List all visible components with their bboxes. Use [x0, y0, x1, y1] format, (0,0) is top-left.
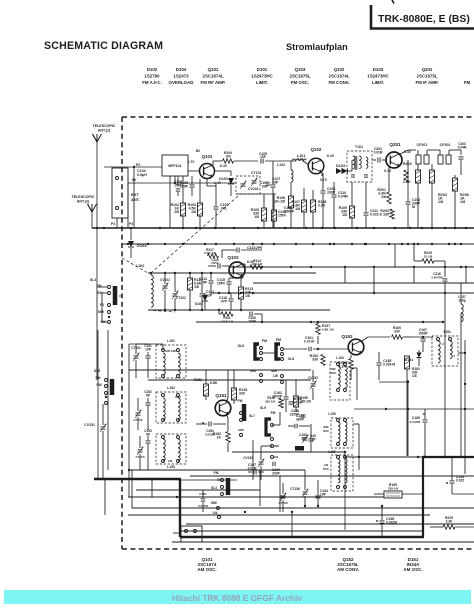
resistor R109 box — [350, 206, 355, 218]
bus y267 — [230, 266, 474, 268]
svg-text:Q201: Q201 — [389, 142, 401, 147]
wire D103 to T101 — [348, 170, 352, 172]
switch SI-5 bar — [110, 379, 115, 395]
wire y480 continues — [178, 479, 237, 481]
wire y457 left segment — [345, 456, 423, 458]
svg-text:TELESCOPIC: TELESCOPIC — [72, 195, 95, 199]
capacitor C165 0.033M — [377, 362, 382, 364]
wire cv101 bottom — [236, 193, 276, 195]
cyan footer band — [4, 590, 471, 604]
transistor Q152 AM conv — [348, 339, 364, 355]
svg-text:T101: T101 — [355, 145, 363, 149]
wire x98 down — [97, 330, 99, 480]
ceramic filter CF201 — [416, 155, 421, 164]
resistor R157 6.8K — [316, 324, 320, 335]
svg-text:LW: LW — [274, 455, 279, 459]
junction on bus y228 — [421, 227, 423, 229]
svg-text:2SC1674L: 2SC1674L — [329, 74, 350, 79]
bus y310 — [148, 309, 330, 311]
resistor R206 box — [453, 178, 458, 191]
resistor R229 3.3K — [443, 525, 455, 529]
junction on bus y228 — [159, 227, 161, 229]
svg-text:2.2K: 2.2K — [403, 180, 411, 184]
svg-text:1/8: 1/8 — [460, 200, 465, 204]
resistor R152 1K — [226, 432, 230, 443]
capacitor C151 — [146, 355, 151, 357]
routing line y536 — [180, 535, 292, 537]
vertical connector x466 — [465, 267, 467, 283]
wire C105 to L101 node — [265, 160, 296, 162]
switch SI-4 bar — [113, 286, 118, 305]
svg-text:CT101: CT101 — [251, 171, 262, 175]
junction on bus y244 — [252, 243, 254, 245]
wire BPF101 bottom left — [169, 176, 171, 228]
svg-text:CT156: CT156 — [290, 487, 300, 491]
title box TRK-8080E — [371, 5, 474, 29]
svg-text:Q151: Q151 — [215, 393, 227, 398]
resistor R205 2.2K vertical — [404, 170, 408, 182]
vertical x445 to thick — [444, 322, 446, 457]
routing line y512 — [132, 507, 474, 509]
wire BPF101 to Q101 base — [188, 170, 200, 172]
capacitor C113 5P — [209, 280, 214, 282]
L155 windings — [338, 422, 340, 426]
svg-text:D101: D101 — [257, 67, 268, 72]
svg-text:CF202: CF202 — [440, 143, 451, 147]
capacitor C160 200P — [272, 462, 274, 467]
svg-text:L152: L152 — [167, 386, 175, 390]
junction dots bus y310 — [164, 309, 166, 311]
svg-text:1500: 1500 — [278, 213, 286, 217]
svg-text:1K-1/8: 1K-1/8 — [274, 199, 285, 203]
svg-text:L154: L154 — [336, 356, 344, 360]
svg-text:CT102: CT102 — [176, 296, 186, 300]
wire right col x452 — [452, 493, 474, 495]
svg-text:AM OSC.: AM OSC. — [197, 567, 216, 572]
svg-text:FM: FM — [238, 399, 243, 403]
svg-text:ANT.: ANT. — [131, 197, 140, 202]
svg-text:1/8: 1/8 — [191, 210, 196, 214]
svg-text:D102: D102 — [147, 67, 158, 72]
svg-text:ANT.(2): ANT.(2) — [98, 129, 111, 133]
junction on bus y228 — [454, 227, 456, 229]
wire bpf bottom to rail — [174, 176, 176, 183]
capacitor C110 0.04M — [332, 194, 337, 196]
junction on bus y228 — [321, 227, 323, 229]
svg-text:P2: P2 — [136, 163, 140, 167]
wire Q103 emitter net — [242, 276, 244, 278]
svg-text:330P: 330P — [327, 190, 336, 194]
svg-text:10P: 10P — [320, 492, 327, 496]
svg-text:15P0: 15P0 — [217, 281, 225, 285]
vertical drop x260 — [259, 470, 261, 506]
svg-text:10P: 10P — [145, 347, 152, 351]
resistor R160 330 — [392, 335, 403, 339]
dashed border bottom — [122, 548, 474, 550]
svg-text:1/8: 1/8 — [438, 200, 443, 204]
junction on bus y228 — [257, 227, 259, 229]
dashed border left — [121, 117, 123, 549]
svg-text:Stromlaufplan: Stromlaufplan — [286, 42, 348, 52]
svg-text:1/8: 1/8 — [381, 195, 386, 199]
capacitor C201 coupling — [377, 158, 379, 163]
junction on bus y228 — [305, 227, 307, 229]
coil L154 dashed box — [330, 362, 350, 400]
vertical connector x461 long — [460, 322, 462, 457]
svg-text:CF201: CF201 — [417, 143, 428, 147]
svg-text:0.047M: 0.047M — [198, 504, 208, 508]
T101 windings — [353, 156, 355, 160]
diode D104 — [130, 228, 132, 240]
svg-text:0.0047M: 0.0047M — [431, 275, 443, 279]
capacitor C107b 33P — [266, 182, 270, 184]
tuning cap CV101 dashed box — [236, 176, 260, 194]
junction on bus y244 — [329, 243, 331, 245]
junction on bus y228 — [130, 227, 132, 229]
junction on bus y228 — [373, 227, 375, 229]
antenna symbol lower — [88, 204, 97, 212]
wire y409 bus right — [354, 408, 474, 410]
trimmer CT153 — [138, 449, 143, 451]
inductor L103 vertical — [291, 170, 293, 174]
junction on bus y244 — [261, 243, 263, 245]
junction on bus y244 — [295, 243, 297, 245]
svg-text:CV151: CV151 — [84, 423, 95, 427]
svg-text:FM: FM — [276, 338, 281, 342]
T151 windings — [438, 341, 440, 345]
routing line y524 — [186, 523, 474, 525]
wire Q152 collector right — [362, 337, 368, 341]
resistor R114 330-1/8 horizontal — [250, 265, 262, 269]
junction dots bus y293 — [218, 292, 220, 294]
svg-text:0.5μH: 0.5μH — [137, 173, 147, 177]
junction on bus y228 — [409, 227, 411, 229]
svg-text:MW: MW — [238, 428, 243, 432]
wire ext ant to bus — [133, 167, 135, 228]
junction dots bus y322 — [261, 321, 263, 323]
wire Q151 collector up — [226, 398, 228, 402]
svg-text:0.7V: 0.7V — [384, 169, 392, 173]
diodes D103 pair — [336, 168, 342, 174]
tick mark above title box — [392, 0, 394, 4]
wire L154 right to bus — [350, 367, 357, 369]
resistor R159 330-1/8 box h — [384, 491, 402, 498]
junction on bus y228 — [394, 227, 396, 229]
svg-text:Q152: Q152 — [341, 334, 353, 339]
vertical connector x345 — [344, 267, 346, 283]
transistor Q101 FM RF amp — [200, 164, 215, 179]
svg-text:47P: 47P — [221, 299, 228, 303]
wire Q101 emitter down — [206, 179, 208, 186]
svg-text:FM: FM — [262, 339, 267, 343]
capacitor C105 series — [260, 159, 262, 164]
svg-text:SW: SW — [96, 383, 102, 387]
vertical feed x148 top — [136, 343, 148, 345]
svg-text:1/8: 1/8 — [174, 210, 179, 214]
routing line y542 — [172, 541, 474, 543]
L156 windings — [338, 459, 340, 463]
vertical x345 bottom — [344, 452, 346, 530]
svg-text:330: 330 — [312, 357, 318, 361]
ext ant jack box — [112, 168, 128, 218]
wire base Q152 — [317, 336, 319, 344]
svg-text:1500P: 1500P — [284, 209, 295, 213]
svg-text:6.8K 1/8: 6.8K 1/8 — [322, 328, 334, 332]
svg-text:R203: R203 — [403, 162, 412, 166]
junction on bus y228 — [96, 227, 98, 229]
svg-text:0.04M: 0.04M — [458, 145, 467, 149]
capacitor C154 0.022M — [208, 422, 210, 427]
capacitor C163 12P — [309, 438, 314, 440]
coil L153 dashed box — [156, 434, 186, 464]
svg-text:0.01M: 0.01M — [374, 150, 383, 154]
thick bus right vertical — [422, 457, 424, 536]
svg-text:OSC: OSC — [330, 371, 337, 375]
switch SI-9 bracket — [266, 419, 271, 435]
trimmer CV152 — [311, 383, 316, 385]
junction dots thick bus — [422, 456, 424, 458]
diode D101 — [230, 171, 232, 176]
svg-text:330-1/8: 330-1/8 — [252, 262, 263, 266]
thick bus right horizontal — [423, 456, 474, 458]
svg-text:ANT.(2): ANT.(2) — [77, 200, 90, 204]
capacitor C169 0.047M — [423, 419, 428, 421]
svg-text:2SC1674L: 2SC1674L — [203, 74, 224, 79]
capacitor C153b — [146, 440, 151, 442]
junction dots bus y267 — [261, 266, 263, 268]
thick vertical x177 — [179, 479, 181, 537]
wire x97 extend — [96, 287, 98, 380]
junction on bus y244 — [364, 243, 366, 245]
svg-text:1/8: 1/8 — [412, 374, 417, 378]
wire y385 stub — [379, 381, 408, 383]
wire left column lower — [102, 292, 107, 294]
vertical x105 below thick — [104, 479, 106, 515]
vertical x132 hook — [131, 470, 133, 508]
svg-text:FM OSC.: FM OSC. — [291, 80, 309, 85]
svg-text:1500P: 1500P — [418, 331, 428, 335]
trimmer CV152b — [259, 461, 264, 463]
svg-text:L103: L103 — [277, 163, 285, 167]
switch SI-5 contacts — [105, 379, 108, 382]
svg-text:1S2790: 1S2790 — [144, 74, 160, 79]
svg-text:LW: LW — [168, 459, 173, 463]
svg-text:Q103: Q103 — [227, 255, 239, 260]
junction on bus y244 — [204, 243, 206, 245]
L151 windings — [163, 353, 165, 357]
resistor R107 box — [302, 200, 307, 212]
inductor L102 coil — [151, 275, 153, 280]
svg-text:15P: 15P — [260, 155, 267, 159]
junction on bus y228 — [431, 227, 433, 229]
capacitor C216 — [443, 278, 448, 280]
trimmer CV102 — [163, 285, 168, 287]
capacitor C152b — [146, 402, 151, 404]
resistor R151 box — [204, 384, 209, 396]
wire ext ant column — [116, 218, 118, 228]
svg-text:FM RF AMP.: FM RF AMP. — [201, 80, 226, 85]
wire R104 to C105 node — [234, 160, 258, 162]
routing line y470 — [129, 469, 305, 471]
coil L156 dashed box — [331, 455, 353, 491]
svg-text:MW: MW — [273, 444, 278, 448]
svg-text:Q102: Q102 — [311, 147, 322, 152]
svg-text:TELESCOPIC: TELESCOPIC — [93, 124, 116, 128]
coil L155 dashed box — [331, 418, 353, 448]
dashed border top — [122, 116, 474, 118]
thick bus bottom — [180, 536, 424, 538]
svg-text:6.8K: 6.8K — [210, 381, 218, 385]
svg-text:SI-8: SI-8 — [288, 357, 294, 361]
trimmer CT151 — [134, 355, 139, 357]
switch SI-4 contacts — [108, 286, 111, 289]
svg-text:SCHEMATIC DIAGRAM: SCHEMATIC DIAGRAM — [44, 40, 163, 52]
routing line y452 — [232, 451, 345, 453]
svg-text:FM: FM — [214, 471, 219, 475]
svg-text:200P: 200P — [272, 471, 281, 475]
svg-text:D103: D103 — [336, 164, 345, 168]
bus y283 to right edge — [253, 282, 474, 284]
wire Q102 emitter — [321, 172, 323, 176]
vertical connector x395 — [394, 244, 396, 267]
junction dots y470 y506 — [128, 469, 130, 471]
svg-text:CV152: CV152 — [243, 456, 253, 460]
capacitor C202 330P — [406, 201, 411, 203]
capacitor C111 0.022-Z — [364, 212, 369, 214]
svg-text:330: 330 — [239, 391, 245, 395]
svg-text:0.7V: 0.7V — [188, 160, 196, 164]
junction on bus y228 — [444, 227, 446, 229]
svg-text:OSC: OSC — [323, 429, 329, 433]
resistor R106 box — [289, 196, 294, 208]
bus y322 — [196, 321, 443, 323]
resistor R103 box — [198, 203, 203, 216]
svg-text:SI-6: SI-6 — [238, 344, 244, 348]
dots bus y244 more — [127, 243, 129, 245]
vertical x292 to thick — [291, 512, 293, 536]
svg-text:BPF101: BPF101 — [168, 164, 181, 168]
trimmer CT101 — [252, 180, 257, 182]
svg-text:FM IF AMP.: FM IF AMP. — [416, 80, 439, 85]
wire T101 to C201 — [372, 159, 376, 161]
svg-text:M: M — [412, 205, 415, 209]
capacitor C109 330P — [321, 190, 326, 192]
svg-text:L155: L155 — [328, 412, 335, 416]
wire antenna bus to BPF101 — [134, 166, 162, 168]
wire Q101 to D101 — [215, 170, 224, 172]
svg-text:2P0: 2P0 — [256, 246, 262, 250]
routing line y490 — [136, 489, 260, 491]
T101 internal caps — [351, 174, 355, 176]
svg-text:2SC1675L: 2SC1675L — [290, 74, 311, 79]
svg-text:100: 100 — [225, 155, 231, 159]
junction on bus y228 — [182, 227, 184, 229]
wire C203 down — [460, 160, 462, 175]
wire CF201 to CF202 — [427, 149, 440, 151]
wire L155/156 col — [353, 423, 359, 425]
resistor R202 330 vertical — [390, 209, 394, 219]
bandpass filter BPF101 box — [162, 155, 188, 176]
bus y370 segment — [129, 369, 311, 371]
junction on bus y228 — [233, 227, 235, 229]
junction on bus y228 — [214, 227, 216, 229]
resistor R156b 330 1-8 — [279, 398, 283, 408]
bus y293 — [210, 292, 474, 294]
svg-text:MW: MW — [211, 501, 217, 505]
resistor R102 box — [181, 203, 186, 216]
capacitor C158 2200P — [301, 414, 306, 416]
resistor R156 2.2K — [349, 359, 353, 370]
resistor R155 box — [294, 396, 299, 407]
diode D102 varactor — [202, 295, 208, 301]
dashed gang link L102 — [122, 258, 148, 273]
wire CF202 to C203 — [449, 149, 461, 151]
node P2 — [133, 166, 135, 168]
capacitor C167 1500P — [421, 338, 426, 340]
svg-text:5P: 5P — [203, 280, 208, 284]
thick node line y480 — [94, 478, 181, 480]
svg-text:1/8: 1/8 — [342, 213, 347, 217]
resistor R225 10 1/8 — [422, 259, 434, 263]
svg-text:0.6μH: 0.6μH — [297, 157, 307, 161]
switch SI-3 bar — [226, 478, 231, 495]
svg-text:100P: 100P — [248, 319, 256, 323]
svg-text:0.033-M: 0.033-M — [383, 362, 395, 366]
svg-text:LW: LW — [213, 511, 218, 515]
mechanical link dashed — [152, 196, 238, 272]
vertical x408 — [407, 380, 409, 456]
svg-text:D101: D101 — [219, 177, 228, 181]
resistor R113 22K box — [239, 287, 244, 299]
svg-text:SW ANT: SW ANT — [165, 349, 177, 353]
svg-text:0.04M: 0.04M — [338, 194, 348, 198]
svg-text:100K 1/8: 100K 1/8 — [221, 319, 234, 323]
junction on bus y244 — [448, 243, 450, 245]
wire Q151 emitter — [226, 414, 228, 418]
svg-text:D104: D104 — [176, 67, 187, 72]
junction dots bus y273 — [150, 272, 152, 274]
resistor R_cf2 box — [430, 170, 435, 183]
coil L152 dashed box — [156, 392, 186, 423]
junction on bus y228 — [465, 227, 467, 229]
junction on bus y244 — [164, 243, 166, 245]
resistor R105 box — [262, 208, 267, 221]
resistor R201 6.8K vertical — [387, 192, 391, 204]
junction on bus y228 — [334, 227, 336, 229]
bus y244 — [122, 243, 474, 245]
trimmer C49 12P — [303, 437, 308, 439]
svg-text:TRK-8080E, E (BS): TRK-8080E, E (BS) — [378, 14, 470, 25]
wire C201 to Q201 base — [382, 159, 387, 161]
capacitor C126 100P — [249, 312, 251, 317]
svg-text:Q101: Q101 — [202, 154, 213, 159]
resistor R154 330 — [321, 355, 325, 366]
trimmer CT156 — [303, 491, 308, 493]
vertical feed x129 — [128, 344, 130, 497]
ext ant contact upper — [116, 177, 119, 180]
svg-text:SI-7: SI-7 — [249, 414, 255, 418]
svg-text:SI-9: SI-9 — [260, 406, 266, 410]
svg-text:FM A.F.C.: FM A.F.C. — [142, 80, 162, 85]
wire antenna upper down — [96, 141, 98, 228]
trimmer CV101 — [241, 183, 246, 185]
resistor R111 100K — [221, 312, 233, 316]
svg-text:AM OSC.: AM OSC. — [403, 567, 422, 572]
svg-text:1/8: 1/8 — [295, 207, 300, 211]
svg-text:T151: T151 — [443, 330, 451, 334]
wire x108 lower segment — [107, 330, 109, 470]
wire si9 area — [272, 424, 280, 426]
